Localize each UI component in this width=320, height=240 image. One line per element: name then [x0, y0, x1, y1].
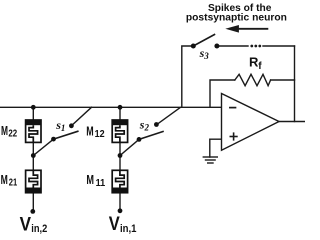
svg-text:f: f	[258, 61, 262, 72]
svg-text:s2: s2	[139, 117, 150, 132]
svg-text:M: M	[86, 123, 93, 138]
svg-text:s3: s3	[199, 46, 210, 61]
svg-text:M: M	[86, 172, 94, 187]
svg-text:V: V	[109, 214, 120, 235]
svg-text:postsynaptic neuron: postsynaptic neuron	[186, 13, 287, 24]
svg-text:M: M	[1, 172, 8, 187]
svg-text:M: M	[1, 123, 8, 138]
svg-text:11: 11	[96, 178, 106, 189]
svg-text:12: 12	[95, 129, 105, 140]
svg-text:s1: s1	[55, 118, 65, 133]
svg-text:in,2: in,2	[31, 223, 47, 235]
svg-text:22: 22	[8, 129, 17, 140]
svg-text:in,1: in,1	[120, 223, 137, 235]
svg-text:V: V	[20, 214, 32, 235]
svg-text:21: 21	[9, 178, 18, 189]
